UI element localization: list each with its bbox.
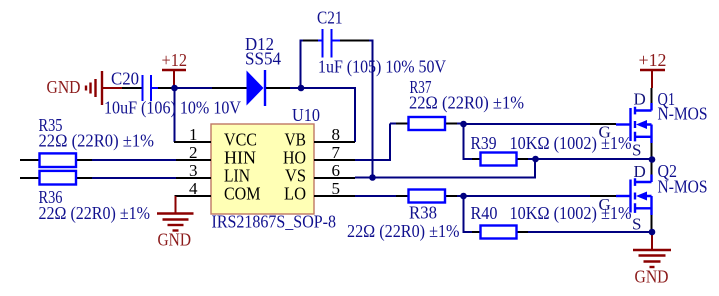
label R38: [409, 203, 437, 223]
pin number 2: [189, 143, 198, 162]
svg-text:8: 8: [332, 125, 341, 144]
node: junction at D12/C21: [298, 85, 305, 92]
node +12 left power port: [162, 70, 186, 88]
node: junction Q1 source / Q2 drain: [649, 156, 656, 163]
wire: HIN lead-in: [20, 159, 40, 161]
power text GND bottom: [635, 267, 669, 287]
value label 22Ω (22R0) ±1% for R38: [347, 221, 460, 241]
wire: D12 anode pin: [212, 87, 247, 89]
wire: [354, 87, 356, 142]
svg-text:R39: R39: [471, 133, 497, 153]
svg-text:D: D: [634, 90, 646, 109]
svg-text:S: S: [632, 215, 641, 234]
pin 4 COM stub: [175, 195, 212, 197]
pin name LO: [284, 184, 306, 204]
wire: C21 right pin: [340, 40, 369, 42]
value label SS54: [245, 49, 281, 69]
resistor R37: [409, 117, 446, 130]
pin name HIN: [224, 148, 256, 168]
pin name VS: [285, 166, 306, 186]
pin number 8: [332, 125, 341, 144]
pin number 4: [189, 179, 198, 198]
wire: [464, 123, 617, 125]
svg-text:+12: +12: [162, 50, 188, 70]
wire: [463, 196, 474, 232]
svg-text:5: 5: [332, 179, 341, 198]
pin 7 HO stub: [314, 159, 355, 161]
wire: [369, 40, 373, 178]
svg-text:GND: GND: [635, 267, 669, 287]
wire: [92, 159, 176, 161]
svg-text:GND: GND: [47, 77, 81, 97]
wire: [92, 177, 176, 179]
wire: LIN lead-in: [20, 177, 40, 179]
wire: R36 right pin: [76, 177, 92, 179]
pin name LIN: [224, 166, 250, 186]
svg-text:R38: R38: [409, 203, 437, 223]
pin number 5: [332, 179, 341, 198]
wire: [456, 195, 616, 197]
wire: [527, 158, 649, 160]
capacitor C21: [318, 29, 340, 58]
svg-text:22Ω (22R0) ±1%: 22Ω (22R0) ±1%: [39, 203, 151, 223]
svg-text:IRS21867S_SOP-8: IRS21867S_SOP-8: [212, 212, 337, 232]
svg-text:HO: HO: [283, 148, 306, 168]
label R39: [471, 133, 497, 153]
wire: [355, 195, 397, 197]
value label 10uF (106) 10% 10V: [104, 98, 241, 118]
ground: bottom GND power port: [633, 232, 671, 267]
svg-text:2: 2: [189, 143, 198, 162]
wire: [300, 40, 305, 42]
diode D12: [247, 70, 266, 106]
wire: Q2 drain black: [651, 162, 653, 175]
ground: COM GND power port: [157, 196, 194, 231]
node: junction Q2 source / GND: [649, 229, 656, 236]
svg-text:SS54: SS54: [245, 49, 281, 69]
wire: [290, 87, 355, 89]
svg-text:6: 6: [332, 161, 341, 180]
power text GND at COM: [158, 230, 192, 250]
label C21: [317, 8, 343, 28]
svg-text:R40: R40: [471, 203, 498, 223]
wire: R37 left pin: [396, 123, 409, 125]
svg-text:N-MOS: N-MOS: [658, 104, 708, 124]
resistor R39: [481, 153, 517, 166]
ground: left GND power port: [86, 71, 122, 105]
wire: Q2 gate black pin: [590, 195, 616, 197]
pin number 3: [189, 161, 198, 180]
svg-text:G: G: [599, 195, 611, 214]
svg-text:22Ω (22R0) ±1%: 22Ω (22R0) ±1%: [409, 93, 524, 113]
pin 5 LO stub: [314, 195, 355, 197]
svg-text:COM: COM: [224, 184, 261, 204]
node: junction R39/VS: [532, 156, 539, 163]
wire: R35 right pin: [76, 159, 92, 161]
label R40: [471, 203, 498, 223]
value label 1uF (105) 10% 50V: [318, 57, 446, 77]
value label 10KΩ (1002) ±1% for R40: [510, 203, 632, 223]
pin label D of Q2: [634, 162, 646, 181]
svg-text:4: 4: [189, 179, 198, 198]
resistor R36: [40, 171, 77, 185]
pin 8 VB stub: [314, 141, 355, 143]
power text GND left: [47, 77, 81, 97]
wire: [534, 159, 536, 178]
pin 6 VS stub: [314, 177, 355, 179]
wire: GND to C20 left plate: [121, 87, 142, 89]
pin number 7: [332, 143, 341, 162]
wire: R40 left pin: [472, 231, 481, 233]
wire: C20 to +12 node: [158, 87, 172, 89]
wire: Q1 gate black pin: [590, 123, 616, 125]
svg-text:1: 1: [189, 125, 198, 144]
wire: Q1 source black: [651, 143, 653, 157]
svg-text:VCC: VCC: [224, 130, 257, 150]
wire: [527, 231, 652, 233]
wire: [174, 88, 176, 142]
label R35: [39, 115, 63, 135]
transistor Q1: [616, 103, 652, 143]
wire: D12 cathode pin: [266, 87, 290, 89]
pin label G of Q1: [599, 123, 611, 142]
svg-text:VB: VB: [285, 130, 307, 150]
resistor R35: [40, 153, 77, 167]
node: junction at +12/C20: [171, 85, 178, 92]
label R37: [410, 77, 432, 97]
node: junction R38/R40/Q2 gate: [460, 193, 467, 200]
wire: R38 right pin: [445, 195, 457, 197]
wire: R39 left pin: [472, 158, 481, 160]
pin 3 LIN stub: [176, 177, 211, 179]
pin name VCC: [224, 130, 257, 150]
wire: Q1 drain black: [651, 88, 653, 103]
svg-text:S: S: [632, 141, 641, 160]
transistor Q2: [616, 175, 652, 216]
svg-text:+12: +12: [639, 50, 667, 70]
wire: Q2 source black: [651, 215, 653, 229]
label R36: [39, 187, 63, 207]
label D12: [245, 34, 274, 54]
svg-text:GND: GND: [158, 230, 192, 250]
svg-text:7: 7: [332, 143, 341, 162]
svg-text:10KΩ (1002) ±1%: 10KΩ (1002) ±1%: [510, 133, 632, 153]
pin number 1: [189, 125, 198, 144]
wire: R38 left pin: [396, 195, 409, 197]
svg-text:U10: U10: [292, 105, 320, 125]
svg-text:1uF (105) 10% 50V: 1uF (105) 10% 50V: [318, 57, 446, 77]
label Q2: [658, 161, 678, 181]
wire: [355, 124, 397, 162]
svg-text:HIN: HIN: [224, 148, 256, 168]
value label 22Ω (22R0) ±1% for R35: [39, 131, 155, 151]
node: junction R37/R39/Q1 gate: [460, 121, 467, 128]
wire: R40 right pin: [517, 231, 529, 233]
svg-text:LIN: LIN: [224, 166, 250, 186]
svg-text:10KΩ (1002) ±1%: 10KΩ (1002) ±1%: [510, 203, 632, 223]
svg-text:N-MOS: N-MOS: [658, 177, 708, 197]
value label 22Ω (22R0) ±1% for R36: [39, 203, 151, 223]
wire: C21 left pin: [303, 40, 322, 42]
pin label D of Q1: [634, 90, 646, 109]
pin name COM: [224, 184, 261, 204]
svg-text:C21: C21: [317, 8, 343, 28]
svg-text:22Ω (22R0) ±1%: 22Ω (22R0) ±1%: [39, 131, 155, 151]
wire: [463, 124, 474, 159]
pin name VB: [285, 130, 307, 150]
pin label G of Q2: [599, 195, 611, 214]
pin label S of Q1: [632, 141, 641, 160]
svg-text:D: D: [634, 162, 646, 181]
wire: [175, 87, 212, 89]
value label 10KΩ (1002) ±1% for R39: [510, 133, 632, 153]
IC U10 IRS21867S_SOP-8 body: [211, 124, 314, 214]
pin number 6: [332, 161, 341, 180]
wire: [355, 177, 536, 179]
wire: R37 right pin: [445, 123, 457, 125]
label U10: [292, 105, 320, 125]
wire: [300, 41, 302, 89]
svg-text:C20: C20: [111, 69, 139, 89]
svg-text:10uF (106) 10% 10V: 10uF (106) 10% 10V: [104, 98, 241, 118]
resistor R38: [409, 190, 446, 203]
svg-text:22Ω (22R0) ±1%: 22Ω (22R0) ±1%: [347, 221, 460, 241]
pin 1 VCC stub: [174, 141, 211, 143]
value label N-MOS for Q2: [658, 177, 708, 197]
wire: R39 right pin: [517, 158, 529, 160]
node: junction VS branch: [369, 174, 376, 181]
value label N-MOS for Q1: [658, 104, 708, 124]
capacitor C20: [143, 75, 159, 101]
label Q1: [658, 89, 676, 109]
pin 2 HIN stub: [176, 159, 211, 161]
power text +12 left: [162, 50, 188, 70]
pin name HO: [283, 148, 306, 168]
pin label S of Q2: [632, 215, 641, 234]
wire: [456, 123, 464, 125]
power text +12 right: [639, 50, 667, 70]
label C20: [111, 69, 139, 89]
svg-text:VS: VS: [285, 166, 306, 186]
value label 22Ω (22R0) ±1% for R37: [409, 93, 524, 113]
resistor R40: [481, 226, 517, 239]
node +12 right power port: [640, 70, 665, 88]
svg-text:3: 3: [189, 161, 198, 180]
value label IRS21867S_SOP-8: [212, 212, 337, 232]
svg-text:LO: LO: [284, 184, 306, 204]
svg-text:G: G: [599, 123, 611, 142]
